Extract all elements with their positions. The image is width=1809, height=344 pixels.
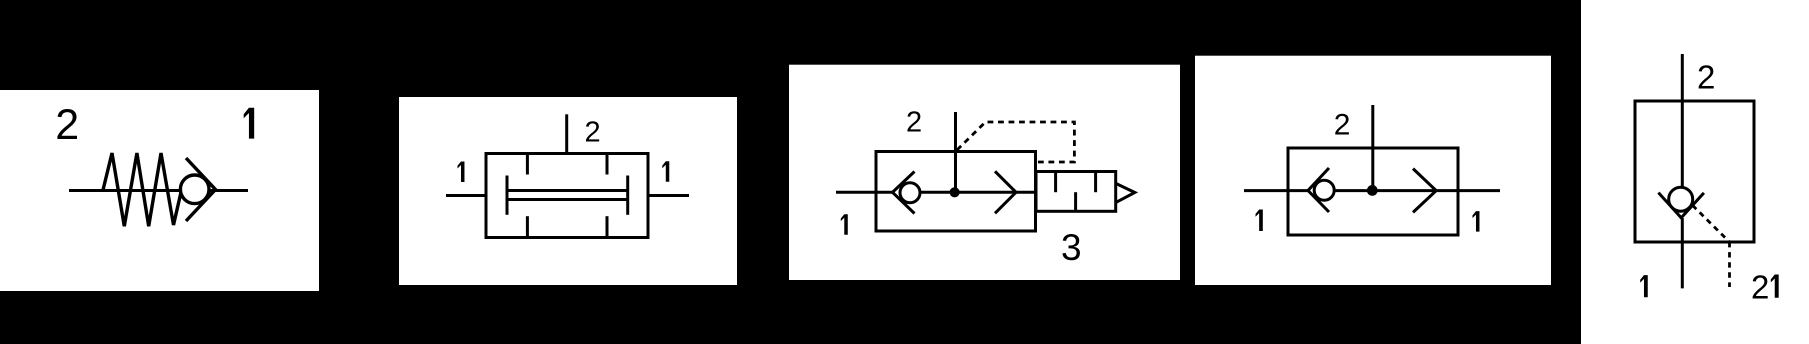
svg-text:2: 2 [1697, 58, 1715, 95]
svg-text:2: 2 [906, 107, 922, 139]
svg-text:2: 2 [55, 101, 79, 149]
svg-text:3: 3 [1061, 227, 1082, 268]
svg-text:2: 2 [1751, 269, 1769, 306]
svg-text:2: 2 [585, 117, 601, 149]
svg-text:2: 2 [1334, 109, 1351, 142]
